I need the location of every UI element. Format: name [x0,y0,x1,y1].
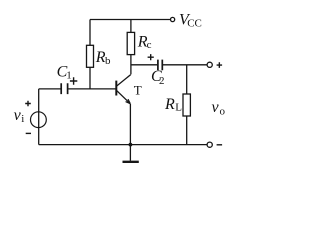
label Rb [95,49,111,67]
plus sign C1 [70,77,77,84]
transistor T base bar [115,81,117,96]
wire C1 to base [68,88,115,90]
node VCC terminal circle [171,17,175,21]
node output plus terminal [207,62,212,67]
label C1 [57,63,72,81]
svg-text:R: R [164,96,175,113]
wire emitter vertical [129,104,131,145]
wire bottom rail [39,144,207,146]
svg-text:2: 2 [159,75,165,87]
wire collector to C2 [131,64,157,66]
wire C2 to output plus [163,64,207,66]
label vo [212,99,226,118]
capacitor C1 [61,83,67,94]
svg-text:L: L [175,101,182,113]
wire Rb branch upper [89,20,91,46]
svg-text:v: v [212,99,220,116]
label VCC [179,12,202,30]
ground stub [129,145,131,161]
resistor Rc [127,32,134,54]
junction emitter-ground dot [129,143,133,147]
minus sign output [217,144,223,146]
resistor RL [183,94,190,116]
wire RL branch lower [186,116,188,145]
source vi circle [31,112,47,128]
svg-text:i: i [21,113,24,125]
plus sign output [217,62,223,68]
wire Rc branch upper [130,20,132,33]
wire Rb branch lower [89,67,91,89]
wire left vertical through source [38,89,40,145]
svg-text:1: 1 [66,70,72,82]
wire top rail [90,19,170,21]
plus sign source [25,101,31,107]
transistor T emitter line [116,90,129,103]
svg-text:o: o [220,106,226,118]
resistor Rb [87,45,94,67]
label RL [164,96,182,113]
transistor emitter arrowhead [126,99,131,104]
capacitor C2 [158,60,162,71]
transistor T collector line [116,75,130,87]
minus sign source [26,132,31,134]
svg-text:c: c [147,39,152,51]
wire RL branch upper [186,65,188,94]
label vi [14,107,25,125]
label Rc [137,34,152,52]
label C2 [151,68,165,87]
ground bar [123,161,139,163]
svg-text:b: b [105,55,111,67]
svg-text:T: T [134,82,142,97]
svg-text:CC: CC [187,17,202,29]
wire Rc branch lower [130,55,132,75]
node output minus terminal [207,142,212,147]
wire input to C1 [39,88,61,90]
plus sign C2 [148,54,154,60]
